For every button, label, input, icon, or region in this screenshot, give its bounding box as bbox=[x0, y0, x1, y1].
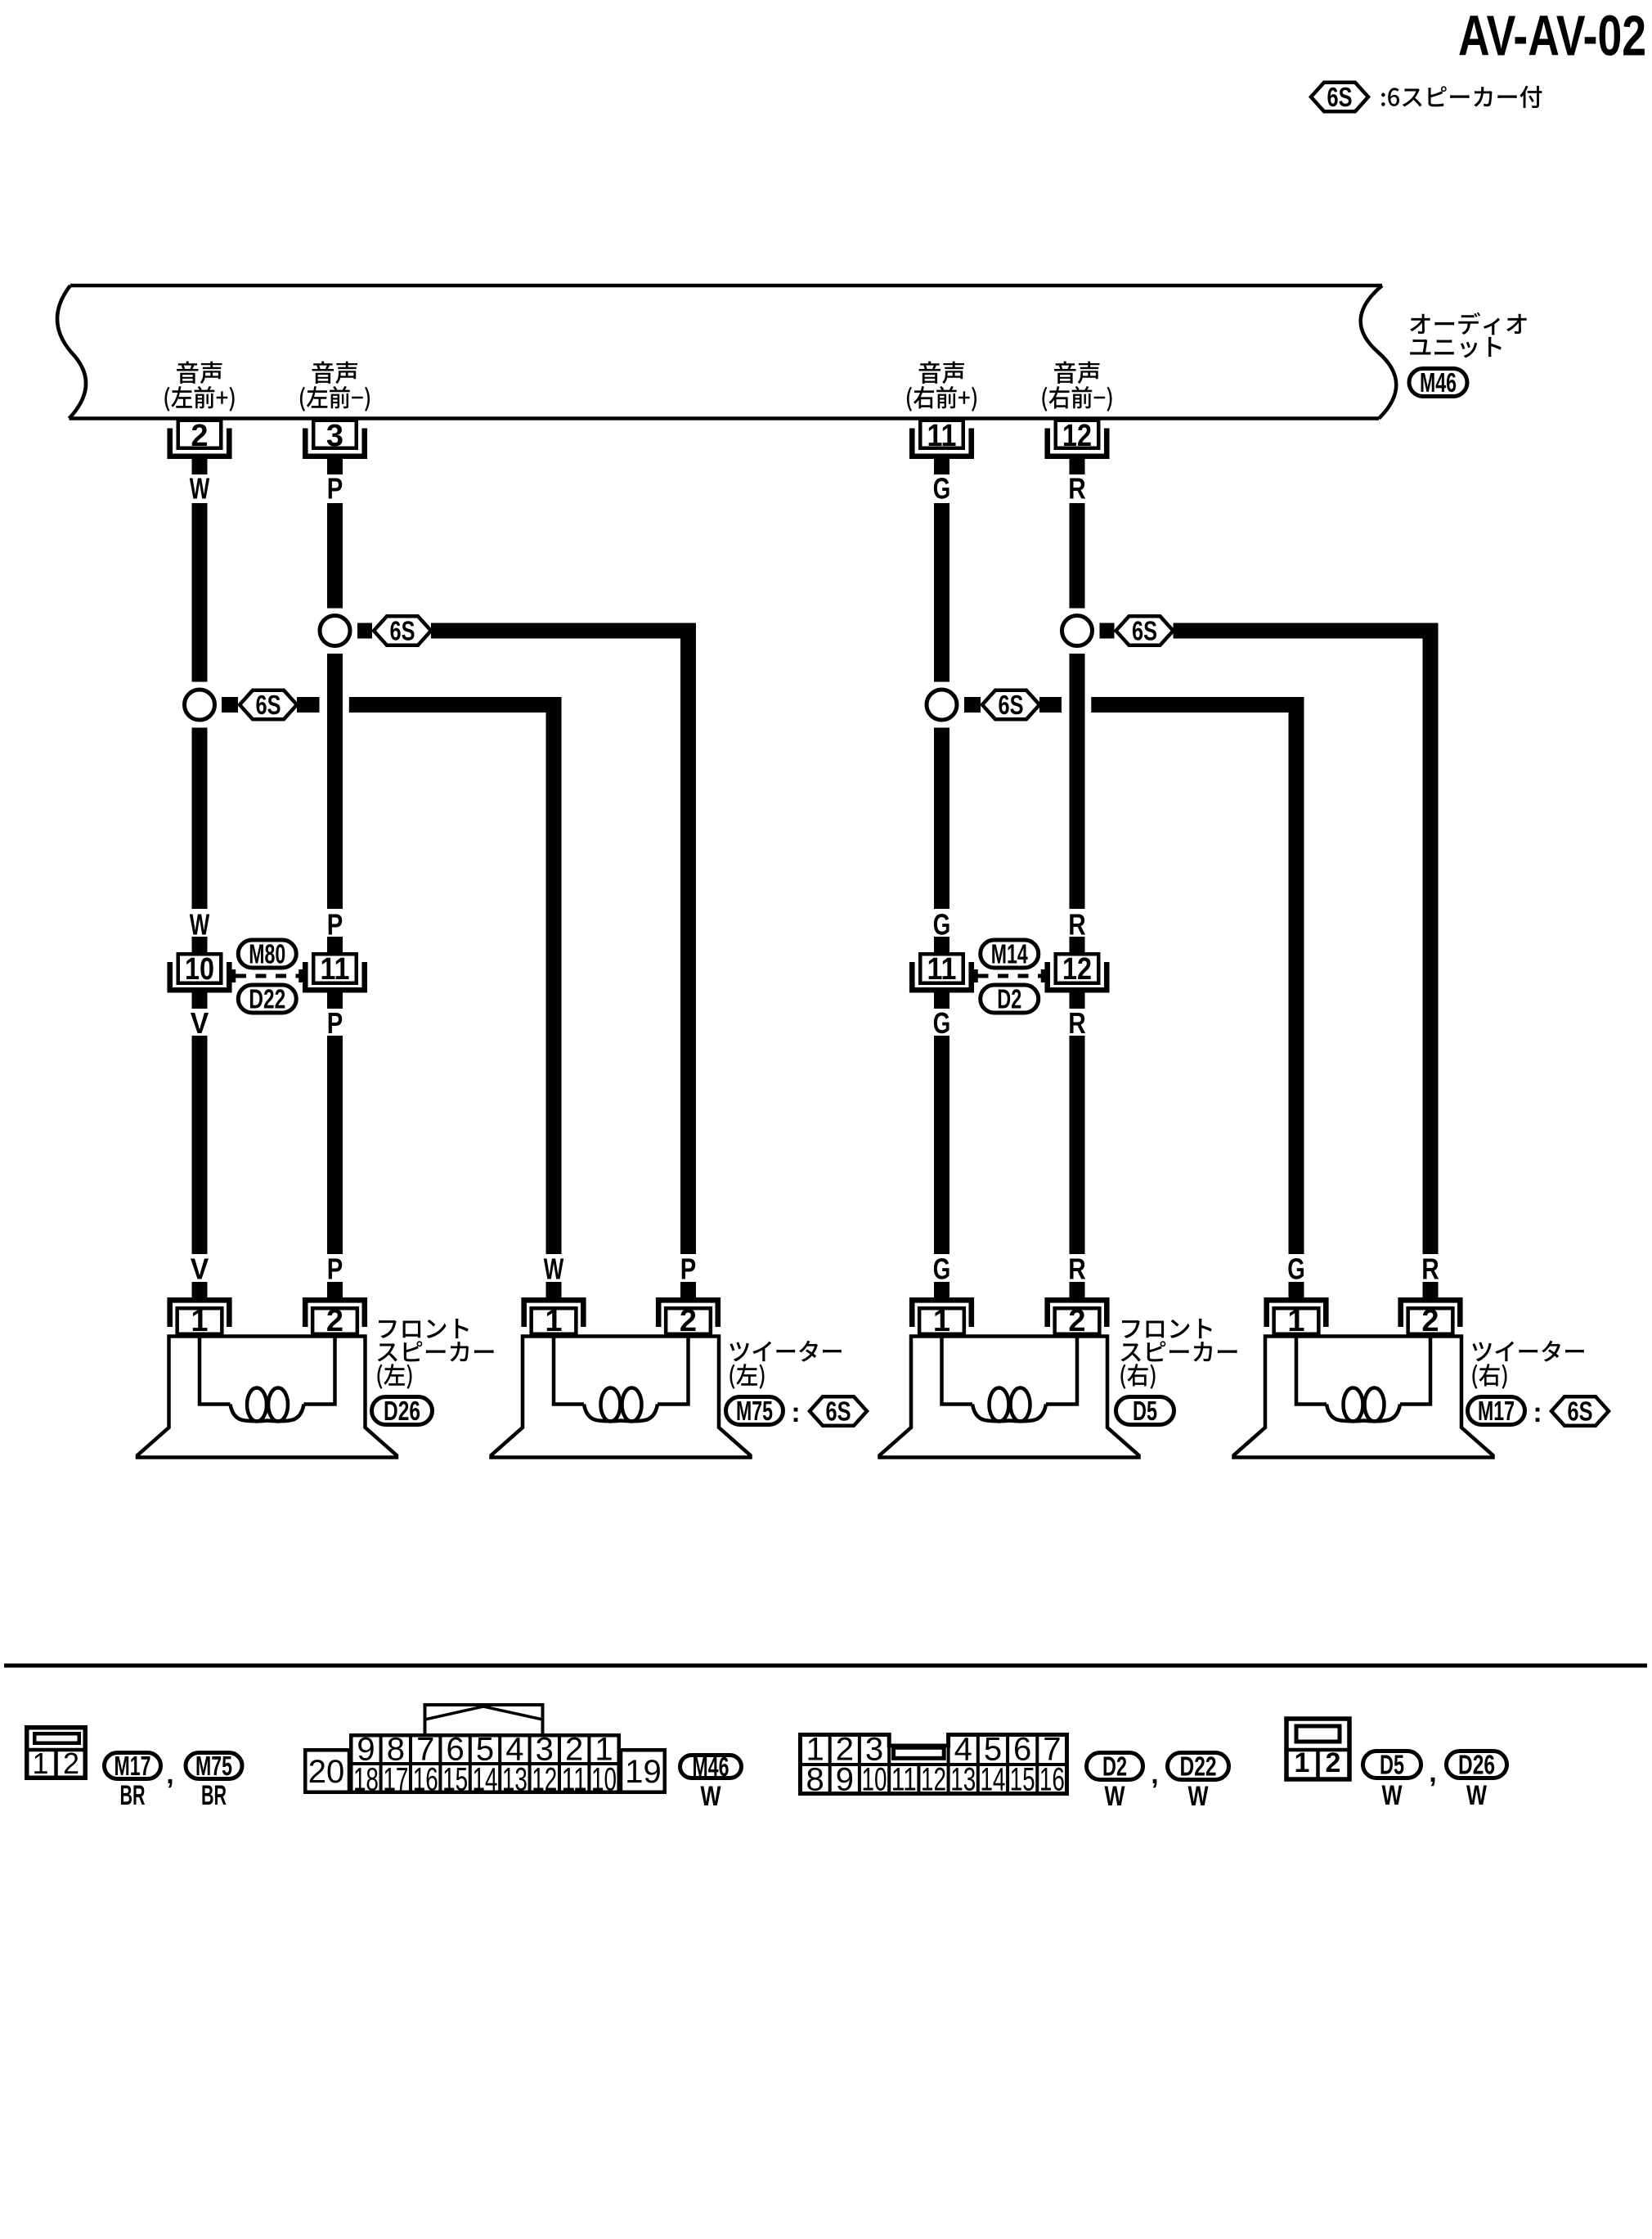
wire stub below pin 12 bbox=[1070, 456, 1085, 475]
svg-text:W: W bbox=[1466, 1780, 1488, 1811]
svg-text:2: 2 bbox=[1068, 1304, 1085, 1338]
svg-text:R: R bbox=[1068, 1006, 1086, 1040]
svg-text:D22: D22 bbox=[1180, 1751, 1217, 1782]
connector label M46 bbox=[1409, 367, 1467, 398]
svg-text:D22: D22 bbox=[249, 984, 285, 1014]
svg-text:G: G bbox=[933, 472, 951, 506]
svg-text:M75: M75 bbox=[195, 1751, 232, 1781]
wire color label G bbox=[933, 472, 951, 506]
connector label M17 (face) bbox=[105, 1751, 161, 1781]
svg-text:6S: 6S bbox=[1568, 1396, 1593, 1427]
branch tag 6S on W branch bbox=[222, 697, 238, 713]
svg-text:14: 14 bbox=[980, 1762, 1005, 1798]
svg-text:15: 15 bbox=[442, 1762, 468, 1798]
wire color label R above speaker pin 2 bbox=[1068, 1252, 1086, 1286]
svg-text:12: 12 bbox=[921, 1762, 946, 1798]
svg-text:R: R bbox=[1421, 1252, 1439, 1286]
svg-text:17: 17 bbox=[383, 1762, 408, 1798]
wire color label P above speaker pin 2 bbox=[327, 1252, 343, 1286]
svg-text:1: 1 bbox=[1295, 1747, 1310, 1778]
wire stub below pin 11 bbox=[934, 990, 949, 1009]
junction on wire P bbox=[320, 616, 350, 646]
svg-text:10: 10 bbox=[185, 952, 214, 987]
svg-text:W: W bbox=[701, 1781, 722, 1812]
svg-text:3: 3 bbox=[326, 419, 343, 453]
connector face M46 20-pin bbox=[305, 1705, 665, 1798]
wire V down to speaker bbox=[192, 1036, 208, 1254]
signal label onsei over pin 11 bbox=[919, 362, 964, 384]
audio unit M46 pin 11 bbox=[912, 419, 972, 456]
svg-text:1: 1 bbox=[933, 1304, 950, 1338]
svg-text:M17: M17 bbox=[114, 1751, 151, 1781]
wire color W labels bbox=[1105, 1781, 1210, 1812]
wire color W label bbox=[701, 1781, 722, 1812]
svg-text:12: 12 bbox=[532, 1762, 557, 1798]
svg-text:10: 10 bbox=[862, 1762, 887, 1798]
audio unit M46 pin 3 bbox=[305, 419, 365, 456]
svg-text:W: W bbox=[190, 908, 210, 942]
wire color label W bbox=[190, 472, 210, 506]
svg-text:D2: D2 bbox=[1102, 1751, 1127, 1782]
svg-text:M14: M14 bbox=[991, 939, 1028, 969]
tag 6S for M17 bbox=[1551, 1396, 1609, 1427]
connector label M17 bbox=[1468, 1396, 1525, 1426]
connector label M14 bbox=[981, 939, 1039, 969]
branch tag 6S on R branch bbox=[1100, 623, 1115, 639]
wire P from audio unit to junction bbox=[327, 503, 343, 609]
svg-text:M75: M75 bbox=[736, 1396, 773, 1426]
wire color label G below pin 11 bbox=[933, 1006, 951, 1040]
wire color label P above pin 11 bbox=[327, 908, 343, 942]
branch tag 6S on P branch bbox=[357, 623, 372, 639]
svg-text:,: , bbox=[1151, 1759, 1158, 1790]
connector label D2 (face) bbox=[1087, 1751, 1143, 1782]
front speaker (right) pin 1 bbox=[912, 1300, 972, 1338]
tag 6S for M75 bbox=[810, 1396, 867, 1427]
inline connector pin 12 bbox=[1048, 952, 1107, 990]
wire color label G above speaker pin 1 bbox=[1287, 1252, 1305, 1286]
signal label onsei over pin 3 bbox=[312, 362, 357, 384]
svg-text:13: 13 bbox=[950, 1762, 976, 1798]
wire color label P below pin 11 bbox=[327, 1006, 343, 1040]
svg-text:18: 18 bbox=[353, 1762, 379, 1798]
connector label M75 bbox=[726, 1396, 783, 1426]
wire color label G above speaker pin 1 bbox=[933, 1252, 951, 1286]
wire R down to speaker bbox=[1070, 1036, 1085, 1254]
wire color label W above pin 10 bbox=[190, 908, 210, 942]
connector face D2/D22 16-pin bbox=[801, 1732, 1067, 1798]
wire stub into pin 11 bbox=[327, 937, 343, 952]
connector label D26 (face) bbox=[1447, 1750, 1507, 1780]
svg-text:2: 2 bbox=[1326, 1747, 1341, 1778]
colon bbox=[791, 1397, 800, 1428]
svg-text:D26: D26 bbox=[384, 1396, 420, 1426]
legend text :6 speaker equipped bbox=[1381, 86, 1542, 108]
wire G from audio unit to junction bbox=[934, 503, 949, 682]
tweeter (left) label bbox=[729, 1341, 841, 1362]
svg-text:10: 10 bbox=[591, 1762, 617, 1798]
branch wire G to tweeter right pin1 (crossing gap at R wire) bbox=[1039, 697, 1062, 713]
svg-text:P: P bbox=[327, 1006, 343, 1040]
audio unit box (torn bus) M46 bbox=[57, 285, 1396, 419]
wire color label R below pin 12 bbox=[1068, 1006, 1086, 1040]
svg-text:19: 19 bbox=[625, 1754, 662, 1790]
svg-text:G: G bbox=[1287, 1252, 1305, 1286]
svg-text:W: W bbox=[1382, 1780, 1403, 1811]
svg-text:D26: D26 bbox=[1458, 1750, 1495, 1780]
wire stub into speaker pin 2 bbox=[1423, 1282, 1439, 1301]
front speaker (right) body bbox=[880, 1337, 1139, 1458]
legend tag 6S hexagon bbox=[1311, 82, 1368, 112]
svg-text:G: G bbox=[933, 1252, 951, 1286]
svg-text:R: R bbox=[1068, 1252, 1086, 1286]
tweeter (right) body bbox=[1234, 1337, 1493, 1458]
svg-text:2: 2 bbox=[680, 1304, 697, 1338]
wire stub into pin 10 bbox=[192, 937, 208, 952]
wire stub into speaker pin 1 bbox=[934, 1282, 949, 1301]
svg-text:6S: 6S bbox=[1132, 616, 1157, 646]
tweeter (left) body bbox=[492, 1337, 751, 1458]
svg-text:6S: 6S bbox=[256, 690, 281, 720]
wire stub into pin 12 bbox=[1070, 937, 1085, 952]
inline connector pin 10 bbox=[170, 952, 230, 990]
mating dashed line bbox=[976, 969, 1044, 982]
title AV-AV-02 bbox=[1458, 4, 1646, 68]
svg-text:W: W bbox=[1105, 1781, 1126, 1812]
wire color label G above pin 11 bbox=[933, 908, 951, 942]
svg-text:V: V bbox=[191, 1006, 209, 1040]
svg-text:M80: M80 bbox=[249, 939, 285, 969]
tweeter (left) pin 2 bbox=[658, 1300, 718, 1338]
junction on wire G bbox=[927, 690, 957, 720]
svg-text:12: 12 bbox=[1062, 952, 1092, 987]
svg-text:14: 14 bbox=[473, 1762, 498, 1798]
svg-text:2: 2 bbox=[63, 1747, 79, 1780]
svg-text:12: 12 bbox=[1062, 419, 1092, 453]
svg-text:11: 11 bbox=[321, 952, 350, 987]
svg-text:6S: 6S bbox=[390, 616, 415, 646]
front speaker (right) label bbox=[1122, 1319, 1212, 1338]
audio unit label bbox=[1410, 312, 1526, 335]
audio unit M46 pin 12 bbox=[1048, 419, 1107, 456]
svg-text:11: 11 bbox=[927, 419, 957, 453]
tweeter (right) pin 2 bbox=[1401, 1300, 1461, 1338]
wire color BR labels bbox=[120, 1780, 227, 1811]
connector face M17/M75 2-pin bbox=[26, 1728, 86, 1780]
svg-text:13: 13 bbox=[502, 1762, 527, 1798]
svg-text:6S: 6S bbox=[1327, 82, 1353, 112]
svg-text:M46: M46 bbox=[693, 1751, 729, 1782]
connector label D26 bbox=[372, 1396, 433, 1426]
connector label M46 (face) bbox=[680, 1751, 742, 1782]
svg-text::: : bbox=[791, 1397, 800, 1428]
svg-text:9: 9 bbox=[836, 1762, 854, 1798]
wire stub below pin 10 bbox=[192, 990, 208, 1009]
branch tag 6S on G branch bbox=[964, 697, 981, 713]
svg-text:P: P bbox=[327, 472, 343, 506]
branch wire P to tweeter left pin2 bbox=[431, 623, 696, 639]
front speaker (right) pin 2 bbox=[1048, 1300, 1107, 1338]
svg-text:W: W bbox=[190, 472, 210, 506]
connector label D22 (face) bbox=[1168, 1751, 1229, 1782]
wire color label V above speaker pin 1 bbox=[191, 1252, 209, 1286]
connector label D2 bbox=[981, 984, 1039, 1014]
junction on wire R bbox=[1062, 616, 1093, 646]
svg-text:D5: D5 bbox=[1133, 1396, 1157, 1426]
connector label M80 bbox=[238, 939, 296, 969]
audio unit M46 pin 2 bbox=[170, 419, 230, 456]
wire stub below pin 2 bbox=[192, 456, 208, 475]
svg-text:16: 16 bbox=[413, 1762, 438, 1798]
svg-text:V: V bbox=[191, 1252, 209, 1286]
front speaker (left) pin 1 bbox=[170, 1300, 230, 1338]
wire G from junction to connector M14 bbox=[934, 728, 949, 910]
tweeter (right) pin 1 bbox=[1267, 1300, 1327, 1338]
wire stub into speaker pin 1 bbox=[1289, 1282, 1304, 1301]
branch wire W to tweeter left pin1 (crossing gap at P wire) bbox=[297, 697, 320, 713]
svg-text:BR: BR bbox=[120, 1780, 146, 1811]
comma bbox=[1151, 1759, 1158, 1790]
colon bbox=[1533, 1397, 1542, 1428]
inline connector pin 11 bbox=[305, 952, 365, 990]
svg-text:P: P bbox=[680, 1252, 697, 1286]
svg-text:11: 11 bbox=[562, 1762, 587, 1798]
svg-text:W: W bbox=[544, 1252, 564, 1286]
svg-text:M17: M17 bbox=[1478, 1396, 1515, 1426]
svg-text:G: G bbox=[933, 1006, 951, 1040]
front speaker (left) body bbox=[137, 1337, 397, 1458]
wire color label P bbox=[327, 472, 343, 506]
front speaker (left) pin 2 bbox=[305, 1300, 365, 1338]
wire color label W above speaker pin 1 bbox=[544, 1252, 564, 1286]
connector label D22 bbox=[238, 984, 296, 1014]
wire P down to speaker bbox=[327, 1036, 343, 1254]
wire color label P above speaker pin 2 bbox=[680, 1252, 697, 1286]
inline connector pin 11 bbox=[912, 952, 972, 990]
wire stub into speaker pin 1 bbox=[546, 1282, 562, 1301]
wire G down to speaker bbox=[934, 1036, 949, 1254]
wire stub into pin 11 bbox=[934, 937, 949, 952]
wire P from junction to connector M80 bbox=[327, 654, 343, 909]
connector label D5 bbox=[1116, 1396, 1174, 1426]
svg-text:P: P bbox=[327, 1252, 343, 1286]
comma bbox=[1429, 1757, 1436, 1788]
svg-text:BR: BR bbox=[201, 1780, 227, 1811]
svg-text:2: 2 bbox=[326, 1304, 343, 1338]
svg-text:11: 11 bbox=[927, 952, 957, 987]
svg-text:W: W bbox=[1188, 1781, 1210, 1812]
branch wire R to tweeter right pin2 bbox=[1174, 623, 1439, 639]
connector label M75 (face) bbox=[186, 1751, 242, 1781]
svg-text:6S: 6S bbox=[826, 1396, 851, 1427]
svg-text:AV-AV-02: AV-AV-02 bbox=[1458, 4, 1646, 68]
tweeter (right) label bbox=[1472, 1341, 1583, 1362]
svg-text:R: R bbox=[1068, 908, 1086, 942]
svg-text:D2: D2 bbox=[997, 984, 1021, 1014]
junction on wire W bbox=[185, 690, 215, 720]
signal label onsei over pin 12 bbox=[1054, 362, 1099, 384]
svg-text::: : bbox=[1533, 1397, 1542, 1428]
wire stub below pin 11 bbox=[934, 456, 949, 475]
wire W from junction to connector M80 bbox=[192, 728, 208, 910]
svg-text:6S: 6S bbox=[999, 690, 1024, 720]
svg-text:11: 11 bbox=[891, 1762, 917, 1798]
svg-text:,: , bbox=[1429, 1757, 1436, 1788]
svg-text:M46: M46 bbox=[1420, 367, 1457, 398]
svg-text:8: 8 bbox=[806, 1762, 824, 1798]
svg-text:P: P bbox=[327, 908, 343, 942]
svg-text:15: 15 bbox=[1010, 1762, 1035, 1798]
mating dashed line bbox=[234, 969, 302, 982]
svg-text:1: 1 bbox=[191, 1304, 208, 1338]
front speaker (left) label bbox=[379, 1319, 469, 1338]
svg-text:R: R bbox=[1068, 472, 1086, 506]
tweeter (left) pin 1 bbox=[524, 1300, 584, 1338]
svg-text:G: G bbox=[933, 908, 951, 942]
wire color label R bbox=[1068, 472, 1086, 506]
wire color label R above speaker pin 2 bbox=[1421, 1252, 1439, 1286]
svg-text:,: , bbox=[166, 1759, 173, 1790]
svg-text:2: 2 bbox=[1421, 1304, 1439, 1338]
wire W from audio unit to junction bbox=[192, 503, 208, 682]
connector label D5 (face) bbox=[1363, 1750, 1421, 1780]
signal label onsei over pin 2 bbox=[177, 362, 222, 384]
svg-text:2: 2 bbox=[191, 419, 208, 453]
svg-text:1: 1 bbox=[545, 1304, 562, 1338]
wire stub into speaker pin 2 bbox=[1070, 1282, 1085, 1301]
wire R from junction to connector M14 bbox=[1070, 654, 1085, 909]
wire stub into speaker pin 1 bbox=[192, 1282, 208, 1301]
svg-text:1: 1 bbox=[32, 1747, 48, 1780]
wire color label R above pin 12 bbox=[1068, 908, 1086, 942]
wire stub below pin 12 bbox=[1070, 990, 1085, 1009]
separator line bbox=[4, 1664, 1647, 1668]
svg-text:16: 16 bbox=[1039, 1762, 1065, 1798]
svg-text:20: 20 bbox=[308, 1754, 345, 1790]
wire color W labels bbox=[1382, 1780, 1488, 1811]
connector face D5/D26 2-pin bbox=[1286, 1719, 1349, 1779]
wire stub below pin 3 bbox=[327, 456, 343, 475]
comma bbox=[166, 1759, 173, 1790]
wire stub into speaker pin 2 bbox=[327, 1282, 343, 1301]
wire R from audio unit to junction bbox=[1070, 503, 1085, 609]
wire stub into speaker pin 2 bbox=[680, 1282, 696, 1301]
svg-text:1: 1 bbox=[1287, 1304, 1304, 1338]
svg-text:D5: D5 bbox=[1380, 1750, 1404, 1780]
wire color label V below pin 10 bbox=[191, 1006, 209, 1040]
wire stub below pin 11 bbox=[327, 990, 343, 1009]
